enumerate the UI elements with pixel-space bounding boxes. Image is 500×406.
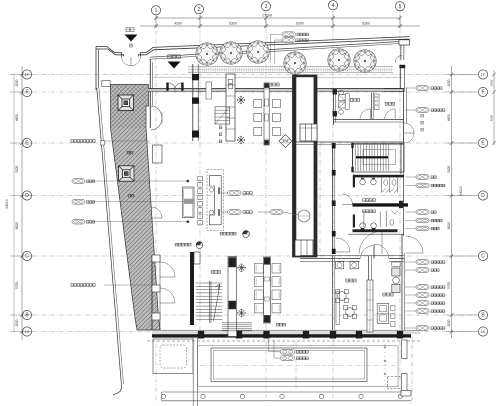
entrance label text	[126, 28, 134, 32]
tea table tag bottom	[274, 340, 308, 360]
horizontal grid line E	[33, 142, 477, 144]
svg-text:F: F	[25, 90, 28, 96]
svg-text:1500: 1500	[15, 319, 19, 326]
west slanted site boundary line	[97, 88, 122, 395]
pool centerline vertical	[295, 341, 297, 390]
table band leader	[93, 201, 184, 203]
top tag leader 1	[270, 34, 282, 62]
right dimension tick	[446, 141, 478, 145]
right dimension tick	[446, 330, 478, 334]
left dimension tick	[10, 254, 33, 258]
right tag 10 成品文件柜	[405, 285, 445, 290]
office top wall	[300, 255, 404, 261]
stair west pilaster	[194, 252, 200, 264]
svg-text:1500: 1500	[15, 79, 19, 86]
corridor big door arc	[359, 231, 382, 254]
left tag 1	[72, 179, 95, 184]
svg-text:4: 4	[332, 3, 335, 9]
shelf block in feature wall	[300, 124, 317, 141]
office2 chairs	[391, 306, 396, 327]
left tag 3	[72, 219, 95, 224]
top tag leader 2	[275, 40, 282, 64]
right dimension segment line	[451, 66, 453, 338]
site wall entrance zigzag outer	[96, 47, 122, 57]
right tag 11 成品办公桌	[405, 293, 445, 298]
duct shaft beside gallery	[153, 145, 163, 163]
monitor room equipment	[339, 90, 350, 114]
svg-text:2: 2	[198, 7, 201, 13]
grid bubble F left	[22, 87, 31, 96]
main entry door posts	[166, 83, 183, 91]
svg-text:4200: 4200	[174, 21, 182, 25]
svg-text:6300: 6300	[229, 21, 237, 25]
dimension line top segments	[140, 25, 420, 27]
right tag 1 成品展柜	[405, 86, 442, 91]
left dimension tick	[10, 73, 33, 77]
south wall column 4	[303, 331, 309, 338]
corridor door arc lower	[336, 238, 350, 252]
door arc into gallery upper	[151, 106, 163, 130]
grid bubble 1F left	[22, 70, 31, 79]
grid bubble C left	[22, 251, 31, 260]
svg-text:1500: 1500	[447, 79, 451, 86]
exhibit feature wall outline	[293, 75, 318, 257]
overall dimension line 17100	[156, 17, 400, 19]
office1 round table B	[344, 306, 357, 319]
left label art glass 2	[71, 284, 152, 287]
gallery label lower	[128, 194, 134, 197]
monitor room door arc	[360, 109, 371, 120]
right dimension tick	[446, 194, 478, 198]
east staircase	[353, 144, 405, 173]
west room door arc 1	[160, 262, 175, 277]
north wall east dark segment	[384, 88, 405, 92]
right tag 13 成品办公椅	[405, 309, 445, 314]
svg-text:D: D	[25, 193, 29, 199]
svg-text:1: 1	[155, 8, 158, 14]
svg-text:5700: 5700	[447, 282, 451, 289]
northeast corner wall	[399, 40, 410, 60]
lounge area label	[276, 323, 285, 326]
west room pilaster 3	[152, 313, 160, 320]
aux vertical grid line	[319, 143, 321, 256]
men toilet stalls	[364, 211, 398, 227]
west room pilaster 2	[152, 285, 160, 292]
small stair icon	[215, 107, 230, 124]
office east wall	[402, 234, 405, 330]
south wall column 7	[397, 331, 403, 338]
right outer dimension chain upper	[490, 70, 496, 145]
spa square	[388, 377, 403, 389]
pier bar upper	[402, 340, 408, 359]
pool inner rect	[211, 348, 367, 382]
lower shelf block in feature wall	[295, 240, 313, 256]
bar leader to circle	[258, 210, 298, 215]
north glazing line	[152, 76, 403, 78]
tree 4	[284, 52, 306, 74]
water bar circle in feature wall	[298, 210, 310, 222]
left dimension tick	[10, 141, 33, 145]
grid bubble 1A left	[22, 327, 31, 336]
entrance up text	[130, 44, 133, 47]
men toilet bottom counter	[353, 229, 398, 232]
grid bubble 5 top	[395, 2, 404, 11]
office2 door arc	[374, 244, 389, 259]
office2 desk	[377, 303, 389, 323]
right tag 9 成品椅	[405, 268, 439, 273]
svg-text:3: 3	[265, 4, 268, 10]
svg-text:1A: 1A	[481, 329, 486, 334]
column K2 in gallery	[119, 166, 135, 182]
dimension tick	[198, 15, 202, 28]
right tag 7 小便器	[405, 226, 439, 231]
top tag bench 2	[282, 38, 308, 43]
men toilet label	[363, 210, 376, 213]
tree 2	[220, 42, 242, 64]
svg-text:1500: 1500	[447, 319, 451, 326]
toilet middle wall	[353, 203, 409, 206]
grid bubble F right	[478, 87, 487, 96]
north display wall strip	[226, 74, 235, 141]
west strip wall	[152, 255, 160, 330]
reception chairs	[254, 100, 281, 136]
left tag 2	[72, 200, 95, 205]
stair east wall strip	[228, 257, 237, 337]
north building wall slanted	[150, 41, 404, 59]
vertical grid line 1	[155, 13, 157, 402]
south wall column 2	[236, 331, 242, 338]
svg-text:6000: 6000	[15, 222, 19, 229]
pool deck dotted line	[384, 344, 386, 387]
main entrance label text	[168, 55, 181, 59]
plant symbol lower	[237, 136, 245, 144]
service desk chairs	[198, 176, 203, 225]
dimension tick	[264, 15, 268, 28]
storage room shelf	[374, 94, 379, 109]
small stair label	[219, 126, 222, 143]
svg-text:5000: 5000	[15, 165, 19, 172]
gallery label upper	[127, 151, 133, 154]
entrance door leaf arcs	[122, 56, 141, 65]
horizontal grid line B	[33, 314, 477, 316]
svg-text:5000: 5000	[447, 165, 451, 172]
site wall entrance zigzag inner	[96, 49, 124, 56]
service desk	[209, 176, 221, 225]
svg-text:6300: 6300	[362, 21, 370, 25]
plant symbol upper	[237, 96, 245, 104]
hand-drawn detail label 1	[175, 242, 203, 249]
aux vertical dash-dot line bottom right	[411, 336, 413, 404]
svg-text:1F: 1F	[481, 72, 486, 77]
right dimension tick	[446, 313, 478, 317]
grid bubble 1 top	[151, 6, 160, 15]
lounge chairs	[254, 263, 281, 313]
rooms divider wall	[371, 93, 373, 120]
site wall north inner	[138, 39, 409, 56]
horizontal grid line C	[33, 255, 477, 257]
grid bubble D left	[22, 191, 31, 200]
sofa tag bottom	[269, 337, 309, 354]
south wall dark band	[152, 334, 411, 337]
monitor room label	[350, 99, 360, 102]
office1 door arc	[361, 246, 374, 259]
northeast door arc	[395, 55, 402, 62]
svg-text:24300: 24300	[5, 199, 9, 209]
grid bubble E right	[478, 138, 487, 147]
dimension tick	[331, 15, 335, 28]
east wall mid	[404, 88, 407, 143]
tree 1	[196, 43, 218, 65]
grid bubble 1F right	[478, 70, 487, 79]
south wall column 6	[356, 331, 362, 338]
entrance arrow triangle	[125, 35, 138, 42]
corridor door arc to toilets	[342, 194, 353, 205]
toilet bottom wall	[348, 233, 404, 235]
south wall column 3	[264, 331, 270, 338]
grid bubble 1A right	[478, 327, 487, 336]
left label art glass	[71, 140, 150, 143]
interior north wall	[148, 89, 404, 92]
svg-text:24300: 24300	[459, 186, 463, 196]
svg-text:5: 5	[399, 4, 402, 10]
right dimension tick	[446, 90, 478, 94]
east door arc lower	[406, 236, 423, 253]
west long table	[183, 187, 194, 218]
east stair east wall	[401, 143, 404, 174]
bottom staircase	[196, 281, 222, 323]
corridor west wall	[332, 143, 336, 254]
horizontal grid line D	[33, 195, 477, 197]
table leader dot upper	[93, 180, 189, 182]
door arc into gallery lower	[151, 207, 162, 218]
exterior steps below stair	[222, 323, 252, 331]
right tag 3 镜面	[405, 175, 436, 180]
left dimension tick	[10, 330, 33, 334]
west slanted site boundary inner line	[99, 88, 124, 384]
walkway end cap	[401, 391, 411, 397]
dimension tick	[154, 15, 158, 28]
east wall upper	[400, 65, 405, 88]
pier bar lower	[402, 374, 408, 392]
monitor room west wall	[333, 89, 337, 125]
svg-text:C: C	[25, 254, 29, 260]
svg-text:4800: 4800	[15, 114, 19, 121]
svg-text:D: D	[481, 193, 485, 199]
lounge plant lower	[238, 309, 246, 317]
women toilet left wall	[353, 175, 355, 188]
women toilet top wall	[353, 175, 404, 178]
vertical grid line 5	[399, 11, 401, 402]
vertical grid line 2	[199, 13, 201, 338]
office1 label	[346, 279, 356, 282]
right tag 14 成品办公桌	[405, 326, 445, 331]
office2 cabinet	[392, 262, 400, 293]
bottom stair label	[211, 271, 221, 274]
grid bubble D right	[478, 191, 487, 200]
gallery hatched hall and corridor	[111, 85, 161, 331]
grid bubble 3 top	[261, 2, 270, 11]
right tag 6 成品洁具	[405, 218, 442, 223]
north facade louver band	[188, 67, 393, 73]
office1 round table A	[336, 290, 349, 303]
grid bubble 2 top	[194, 5, 203, 14]
pool centerline horizontal	[200, 365, 395, 367]
office divider wall 2	[367, 256, 373, 332]
office divider wall 1	[333, 256, 335, 330]
south wall upper gray band	[152, 330, 420, 334]
grid bubble B right	[478, 310, 487, 319]
women toilet stalls	[382, 177, 398, 193]
column K1 in gallery	[118, 95, 134, 111]
west room pilaster 1	[152, 255, 160, 262]
west room door arc 2	[160, 288, 175, 303]
gallery corner post	[102, 81, 110, 87]
gallery upper block crosshatch overlay	[111, 85, 149, 129]
main entrance arrow triangle	[168, 62, 181, 69]
planter square	[153, 339, 193, 374]
vertical grid line 4	[332, 11, 334, 400]
svg-text:6300: 6300	[296, 21, 304, 25]
grid bubble E left	[22, 138, 31, 147]
south terrace dashed line	[147, 340, 420, 342]
svg-text:F: F	[481, 90, 484, 96]
top tag bench 1	[282, 32, 308, 37]
right dimension tick	[446, 254, 478, 258]
svg-text:6000: 6000	[447, 222, 451, 229]
women toilet basin 2	[371, 178, 377, 185]
cashier tag	[221, 210, 252, 215]
main entry door arcs on north wall	[169, 83, 182, 92]
tree 5	[328, 49, 350, 71]
office1 cabinets	[335, 262, 358, 269]
service area dashed boundary	[207, 169, 223, 230]
svg-text:4800: 4800	[447, 114, 451, 121]
left dimension segment line	[21, 66, 23, 340]
storage room label	[385, 102, 395, 105]
pool outer rect	[198, 346, 398, 387]
hand-drawn detail label 2	[220, 231, 249, 238]
bar counter	[264, 83, 269, 145]
right tag 8 成品办公桌	[405, 260, 445, 265]
stair landing wall row E	[292, 142, 404, 144]
dimension tick	[398, 15, 402, 28]
left dimension tick	[10, 194, 33, 198]
south wall column 1	[198, 331, 204, 338]
south wall column 5	[330, 331, 336, 338]
east downpipe text	[421, 114, 424, 131]
svg-text:C: C	[481, 254, 485, 260]
west entrance wall	[96, 47, 98, 90]
right dimension tick	[446, 73, 478, 77]
site wall north outer	[141, 37, 410, 57]
right tag 2 成品办公桌	[405, 108, 445, 113]
men toilet left wall	[353, 215, 355, 228]
lounge table strip	[264, 257, 271, 323]
walkway columns	[161, 394, 402, 398]
svg-text:5700: 5700	[15, 282, 19, 289]
service desk tag	[221, 191, 252, 196]
right tag 4 台面洗手盆	[405, 183, 445, 188]
lobby pilaster	[206, 82, 212, 99]
central wall grid2	[192, 64, 199, 141]
right tag 5 隔断	[405, 210, 436, 215]
office2 label	[383, 293, 393, 296]
gallery boundary tick	[101, 141, 105, 145]
grid bubble 4 top	[328, 1, 337, 10]
left dimension tick	[10, 90, 33, 94]
diamond display table	[279, 135, 292, 148]
tree 3	[247, 41, 269, 63]
walkway lines	[162, 392, 411, 401]
horizontal grid line 1F	[33, 74, 477, 76]
men toilet basin 2	[371, 223, 377, 231]
svg-text:4800: 4800	[490, 114, 494, 121]
women toilet label	[363, 199, 376, 202]
svg-text:1500: 1500	[490, 80, 494, 87]
vertical grid line 3	[265, 11, 267, 402]
monitor storage rooms bottom wall	[333, 119, 404, 122]
storage room door arc	[385, 109, 396, 120]
right tag 12 成品办公椅	[405, 301, 445, 306]
terrace west edge lines	[193, 336, 197, 406]
west interior wall	[150, 59, 152, 128]
grid bubble B left	[22, 310, 31, 319]
left dimension tick	[10, 313, 33, 317]
lounge plant upper	[238, 264, 246, 272]
horizontal grid line F	[33, 91, 477, 93]
reception area label	[269, 83, 279, 86]
stair west black wall	[190, 252, 194, 325]
grid bubble C right	[478, 251, 487, 260]
women toilet basin 1	[360, 178, 366, 185]
east stair west wall	[352, 143, 354, 172]
east double door arcs	[404, 123, 414, 143]
table leader dot lower	[93, 221, 189, 223]
men toilet basin 1	[360, 223, 366, 231]
office1 desk strip	[336, 292, 340, 325]
horizontal grid line 1A	[33, 331, 477, 333]
east wall at toilets	[399, 174, 403, 236]
tree 6	[354, 50, 376, 72]
left overall dimension line 24300	[13, 75, 15, 332]
